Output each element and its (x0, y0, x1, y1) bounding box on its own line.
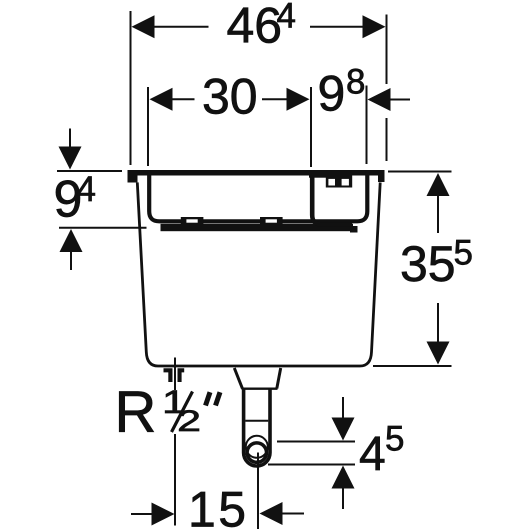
dimension 4.5 upper arrow (points down) (332, 418, 355, 441)
clip 1 notch (186, 219, 197, 222)
housing window 1 (328, 179, 335, 186)
clip 1 body (181, 217, 204, 224)
dimension 4.5 upper stem (342, 397, 344, 418)
dimension 46.4 left arrow (132, 15, 155, 38)
dimension 46.4 right tail (310, 26, 363, 28)
outlet taper right side (277, 368, 281, 389)
dimension 9.4 upper arrow (points down) (59, 147, 82, 170)
dimension 9.4 lower arrow (points up) (60, 229, 83, 252)
outlet taper bottom line (242, 388, 278, 390)
double prime (206, 392, 221, 405)
dimension 35.5 upper stem (437, 196, 439, 233)
svg-text:5: 5 (454, 234, 473, 273)
cistern lid right lip (378, 174, 385, 182)
service box bottom thick bar (161, 224, 354, 231)
valve compartment divider (312, 174, 352, 225)
water inlet centerline upper segment (174, 358, 176, 391)
svg-text:4: 4 (277, 0, 296, 36)
cistern lid left lip (128, 174, 138, 183)
svg-text:9: 9 (318, 66, 346, 122)
dimension 4.5 lower reference line (268, 464, 355, 466)
outlet taper left side (234, 368, 242, 389)
dimension 9.4 bottom reference line (59, 227, 147, 229)
svg-text:4: 4 (359, 428, 386, 481)
dimension 9.4 lower arrow stem (70, 252, 72, 270)
dimension 9.4 upper arrow stem (69, 129, 71, 147)
svg-text:4: 4 (77, 170, 96, 209)
dimension 4.5 lower stem (342, 489, 344, 510)
dimension 46.4 right arrow (363, 15, 386, 38)
service box bar end step (350, 226, 358, 233)
dimension 30 right arrow (287, 88, 310, 111)
dimension 35.5 lower arrow (points down) (427, 342, 450, 365)
cistern lid (128, 170, 385, 176)
extension line right of 46.4 (lower segment) (386, 118, 388, 161)
dimension 9.8 tail (391, 99, 411, 101)
dimension 35.5 lower stem (437, 303, 439, 342)
svg-text:30: 30 (202, 69, 258, 125)
extension line left of 46.4 (130, 11, 132, 165)
inlet socket left half (164, 368, 173, 382)
dimension 30 left arrow (150, 88, 173, 111)
water inlet centerline lower segment (174, 434, 176, 526)
flush pipe walls and bottom bend (244, 388, 270, 466)
svg-text:8: 8 (346, 63, 365, 102)
flush button housing (326, 175, 352, 188)
inlet socket right half (178, 368, 185, 382)
dimension 4.5 upper reference line (277, 441, 355, 443)
dimension 9.8 arrow (points left) (368, 88, 391, 111)
outlet centerline (257, 453, 259, 530)
svg-text:46: 46 (227, 0, 283, 54)
dimension 30 right tail (262, 98, 287, 100)
extension line right of 46.4 (upper segment) (386, 15, 388, 85)
dimension 15 left arrow (points right) (152, 503, 175, 526)
pipe joint line (245, 420, 268, 422)
inner service box (149, 172, 367, 221)
outlet opening thick ring (247, 443, 266, 462)
extension line right of 9.8 (366, 86, 368, 165)
dimension 35.5 bottom reference line (373, 365, 452, 367)
svg-text:2: 2 (177, 405, 201, 438)
dimension 46.4 left tail (153, 26, 209, 28)
svg-text:35: 35 (400, 236, 456, 292)
dimension 35.5 upper arrow (points up) (427, 173, 450, 196)
dimension 15 left tail (131, 513, 152, 515)
svg-text:R: R (115, 380, 157, 445)
extension line right of 30 (310, 87, 312, 167)
extension line left of 30 (147, 87, 149, 166)
dimension 30 left tail (173, 98, 195, 100)
dimension 4.5 lower arrow (points up) (332, 466, 355, 489)
clip 2 notch (266, 219, 277, 222)
svg-text:15: 15 (188, 482, 249, 530)
dimension 15 right arrow (points left) (260, 502, 283, 525)
dimension 9.4 top reference line (57, 170, 122, 172)
svg-text:5: 5 (385, 420, 404, 459)
clip 2 body (260, 217, 283, 224)
dimension 15 right tail (283, 513, 305, 515)
bend thin circle (246, 436, 268, 458)
housing window 2 (342, 179, 349, 186)
cistern outer shell (walls and bottom) (137, 183, 380, 367)
dimension 35.5 top reference line (388, 171, 452, 173)
under-lid strip (309, 175, 329, 178)
